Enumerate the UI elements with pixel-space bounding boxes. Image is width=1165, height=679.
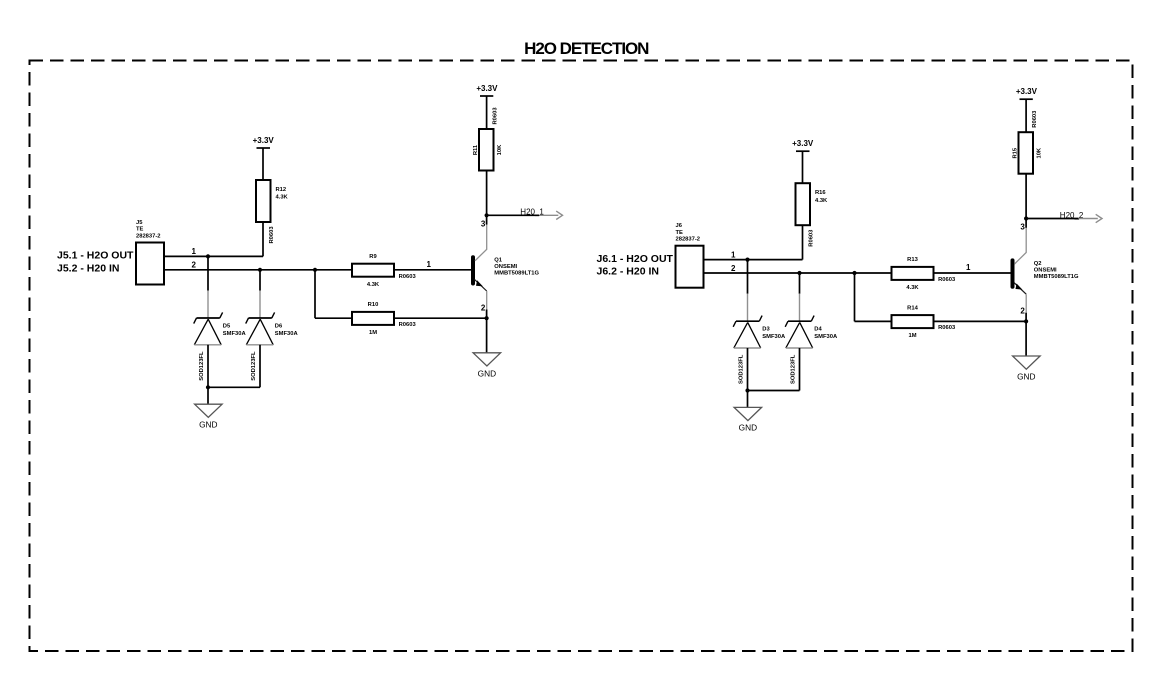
svg-text:1: 1 — [192, 247, 197, 256]
wire diode D4 bottom — [799, 348, 801, 391]
diode D6 — [246, 291, 299, 381]
svg-text:GND: GND — [199, 419, 217, 429]
svg-text:4.3K: 4.3K — [815, 198, 828, 204]
svg-text:Q2: Q2 — [1034, 261, 1042, 267]
wire Rbase to Q base — [934, 272, 1011, 274]
wire to diode D6 — [259, 270, 261, 291]
ground (diodes) — [195, 404, 223, 429]
svg-text:ONSEMI: ONSEMI — [494, 264, 517, 270]
svg-text:2: 2 — [192, 261, 197, 270]
svg-text:+3.3V: +3.3V — [253, 136, 275, 145]
svg-text:SOD123FL: SOD123FL — [739, 354, 745, 384]
svg-text:R0603: R0603 — [1032, 110, 1038, 128]
svg-text:2: 2 — [731, 264, 736, 273]
resistor R11 — [473, 107, 503, 171]
junction collector/net — [1024, 216, 1028, 220]
svg-text:1: 1 — [966, 263, 971, 272]
svg-text:R0603: R0603 — [808, 229, 814, 247]
junction pin1/D — [206, 254, 210, 258]
svg-text:SMF30A: SMF30A — [814, 334, 838, 340]
junction emitter/Rfb — [485, 316, 489, 320]
label J5.1 / J5.2 — [57, 250, 134, 275]
svg-text:R10: R10 — [368, 302, 379, 308]
resistor R10 — [352, 302, 416, 336]
svg-text:GND: GND — [739, 423, 757, 433]
resistor R15 — [1013, 110, 1043, 174]
junction pin2/D — [258, 268, 262, 272]
connector J6 — [676, 223, 704, 288]
junction pin2/Rfb — [852, 271, 856, 275]
svg-text:R0603: R0603 — [269, 226, 275, 244]
junction collector/net — [485, 213, 489, 217]
svg-text:Q1: Q1 — [494, 258, 503, 264]
resistor R14 — [892, 305, 956, 339]
svg-text:R0603: R0603 — [399, 322, 417, 328]
svg-text:SMF30A: SMF30A — [223, 331, 247, 337]
resistor R12 — [256, 180, 289, 244]
svg-text:1M: 1M — [908, 333, 916, 339]
svg-text:SOD123FL: SOD123FL — [251, 351, 257, 381]
svg-text:J5.2 - H20 IN: J5.2 - H20 IN — [57, 262, 119, 274]
svg-text:GND: GND — [478, 369, 496, 379]
svg-text:R16: R16 — [815, 190, 826, 196]
svg-text:4.3K: 4.3K — [906, 285, 919, 291]
svg-text:+3.3V: +3.3V — [1016, 87, 1038, 96]
wire pin2 drop to Rfb — [314, 270, 316, 318]
svg-text:GND: GND — [1017, 372, 1035, 382]
svg-text:J5.1 - H2O OUT: J5.1 - H2O OUT — [57, 250, 134, 262]
svg-text:10K: 10K — [1037, 147, 1043, 158]
power +3.3V (R12) — [253, 136, 275, 148]
svg-text:MMBT5089LT1G: MMBT5089LT1G — [1034, 274, 1079, 280]
svg-text:R0603: R0603 — [492, 107, 498, 125]
wire Rbase to Q base — [394, 269, 471, 271]
power +3.3V (R11) — [476, 84, 498, 96]
wire pin2 — [164, 269, 352, 271]
wire emitter down — [1025, 313, 1027, 356]
transistor Q2 — [1013, 228, 1079, 313]
ground (emitter) — [1013, 356, 1041, 382]
svg-text:2: 2 — [1020, 307, 1025, 316]
wire pin2 — [704, 272, 892, 274]
wire to diode D5 — [207, 256, 209, 290]
svg-text:ONSEMI: ONSEMI — [1034, 267, 1057, 273]
wire diode D3 bottom — [747, 348, 749, 391]
svg-text:282837-2: 282837-2 — [676, 237, 701, 243]
wire collector — [486, 215, 488, 224]
svg-text:3: 3 — [1020, 223, 1025, 232]
wire power to Rpullup — [1025, 99, 1027, 132]
net label H20_2 — [1026, 211, 1102, 223]
wire diode D5 bottom — [207, 345, 209, 388]
svg-text:J6.1 - H2O OUT: J6.1 - H2O OUT — [597, 253, 674, 265]
svg-text:SOD123FL: SOD123FL — [199, 351, 205, 381]
wire power to Rtop — [262, 148, 264, 180]
svg-text:282837-2: 282837-2 — [136, 233, 161, 239]
svg-text:R9: R9 — [369, 254, 377, 260]
ground (diodes) — [734, 407, 762, 432]
wire Rtop to pin1 — [262, 222, 264, 256]
junction emitter/Rfb — [1024, 319, 1028, 323]
junction pin2/Rfb — [313, 268, 317, 272]
junction gnd bus — [745, 388, 749, 392]
wire power to Rpullup — [486, 96, 488, 129]
resistor R13 — [892, 257, 956, 291]
junction gnd bus — [206, 385, 210, 389]
svg-text:H2O DETECTION: H2O DETECTION — [524, 39, 649, 58]
svg-text:R0603: R0603 — [938, 277, 956, 283]
wire pin1 — [164, 255, 263, 257]
svg-text:R0603: R0603 — [938, 325, 956, 331]
svg-text:4.3K: 4.3K — [276, 195, 289, 201]
diode D5 — [194, 291, 247, 381]
svg-text:10K: 10K — [497, 144, 503, 155]
wire collector — [1025, 219, 1027, 228]
svg-text:SOD123FL: SOD123FL — [791, 354, 797, 384]
svg-text:R13: R13 — [907, 257, 918, 263]
resistor R16 — [796, 183, 829, 247]
wire to diode D3 — [747, 260, 749, 294]
ground (emitter) — [473, 353, 501, 379]
svg-text:+3.3V: +3.3V — [476, 84, 498, 93]
svg-text:SMF30A: SMF30A — [762, 334, 786, 340]
transistor Q1 — [473, 225, 539, 310]
junction pin2/D — [797, 271, 801, 275]
svg-text:MMBT5089LT1G: MMBT5089LT1G — [494, 271, 539, 277]
svg-text:H20_2: H20_2 — [1060, 211, 1084, 220]
resistor R9 — [352, 254, 416, 288]
wire pin1 — [704, 259, 803, 261]
svg-text:J6.2 - H20 IN: J6.2 - H20 IN — [597, 266, 659, 278]
wire Rpullup to collector — [486, 171, 488, 216]
wire Rfb to emitter — [934, 320, 1027, 322]
svg-text:1: 1 — [731, 250, 736, 259]
svg-text:R11: R11 — [473, 144, 479, 155]
wire emitter down — [486, 310, 488, 353]
net label H20_1 — [487, 208, 563, 220]
wire to diode D4 — [799, 273, 801, 294]
wire diode D6 bottom — [259, 345, 261, 388]
svg-text:J5: J5 — [136, 220, 143, 226]
svg-text:R14: R14 — [907, 305, 918, 311]
svg-text:D6: D6 — [275, 323, 283, 329]
svg-text:R12: R12 — [276, 187, 287, 193]
svg-text:4.3K: 4.3K — [367, 282, 380, 288]
wire diode gnd bus — [208, 386, 260, 388]
svg-text:D3: D3 — [762, 327, 770, 333]
svg-text:H20_1: H20_1 — [520, 208, 544, 217]
svg-text:R0603: R0603 — [399, 274, 417, 280]
junction pin1/D — [745, 258, 749, 262]
wire pin2 drop to Rfb — [854, 273, 856, 321]
label J6.1 / J6.2 — [597, 253, 674, 278]
svg-text:TE: TE — [676, 230, 684, 236]
wire Rpullup to collector — [1025, 174, 1027, 219]
svg-text:R15: R15 — [1013, 147, 1019, 158]
svg-text:SMF30A: SMF30A — [275, 331, 299, 337]
wire bus to ground — [747, 391, 749, 408]
svg-text:D4: D4 — [814, 327, 822, 333]
diode D3 — [733, 294, 786, 384]
power +3.3V (R16) — [792, 139, 814, 151]
svg-text:J6: J6 — [676, 223, 683, 229]
wire diode gnd bus — [748, 390, 800, 392]
wire Rfb to emitter — [394, 317, 487, 319]
wire Rtop to pin1 — [802, 225, 804, 259]
svg-text:TE: TE — [136, 227, 144, 233]
wire bus to ground — [207, 387, 209, 404]
wire power to Rtop — [802, 151, 804, 183]
svg-text:+3.3V: +3.3V — [792, 139, 814, 148]
diode D4 — [785, 294, 838, 384]
svg-text:3: 3 — [481, 219, 486, 228]
svg-text:D5: D5 — [223, 323, 231, 329]
svg-text:1M: 1M — [369, 330, 377, 336]
svg-text:1: 1 — [427, 260, 432, 269]
power +3.3V (R15) — [1016, 87, 1038, 99]
svg-text:2: 2 — [481, 303, 486, 312]
connector J5 — [136, 220, 164, 285]
